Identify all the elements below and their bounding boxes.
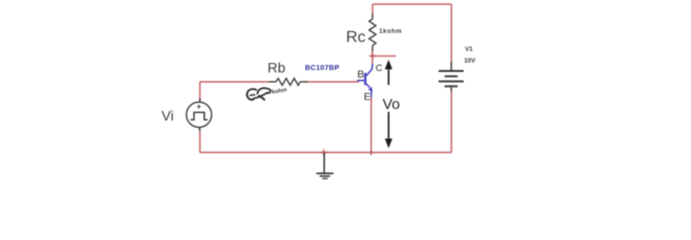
- svg-text:Rc: Rc: [346, 29, 366, 46]
- svg-text:kohm: kohm: [272, 87, 288, 95]
- svg-text:Rb: Rb: [268, 60, 286, 76]
- svg-text:Vi: Vi: [162, 108, 174, 124]
- svg-text:V1: V1: [465, 46, 473, 53]
- svg-text:10V: 10V: [464, 57, 476, 64]
- svg-text:B: B: [357, 69, 364, 81]
- svg-text:E: E: [364, 91, 371, 103]
- svg-text:1kohm: 1kohm: [379, 28, 402, 35]
- svg-text:C: C: [376, 63, 383, 74]
- svg-text:Vo: Vo: [383, 96, 401, 113]
- svg-text:BC107BP: BC107BP: [305, 63, 339, 72]
